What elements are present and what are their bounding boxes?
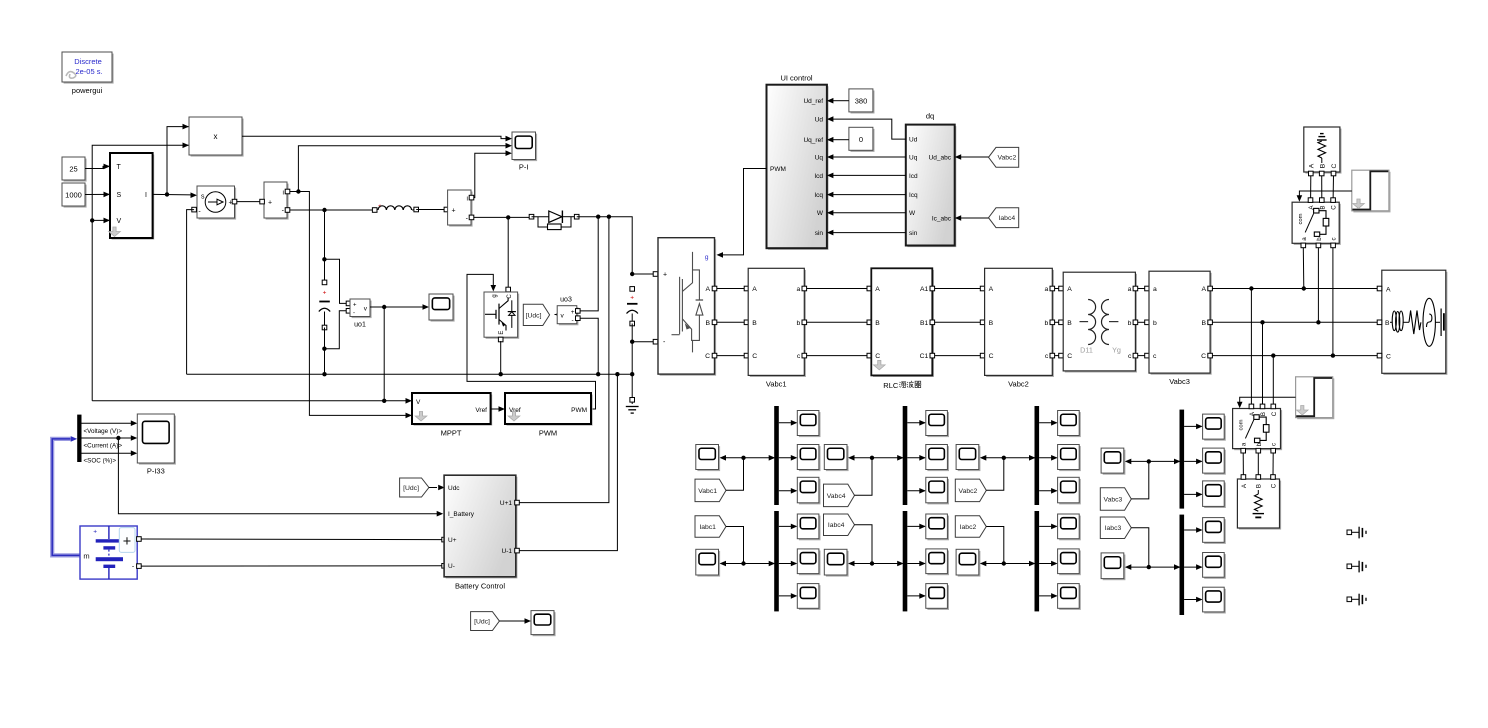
svg-text:c: c xyxy=(1271,443,1278,446)
svg-text:A: A xyxy=(1202,286,1207,293)
load2 icon xyxy=(1257,490,1259,494)
dc plus rail wire after diode xyxy=(577,217,633,274)
scope Vabc3 a xyxy=(1204,416,1226,441)
wire i down to MPPT input 2 xyxy=(298,192,406,416)
svg-text:V: V xyxy=(117,218,122,225)
source icon rotated R-L xyxy=(1321,158,1323,163)
svg-text:A: A xyxy=(1386,286,1391,293)
wire demux Vabc3 out2 xyxy=(1184,460,1202,462)
RLC filter block (RLC LvBoQi) xyxy=(873,270,934,377)
svg-text:-: - xyxy=(572,317,574,324)
dq block xyxy=(907,126,956,247)
svg-text:C: C xyxy=(1331,163,1338,168)
wire Vabc2 to demux xyxy=(986,458,1004,491)
scope Iabc3 a xyxy=(1204,519,1226,544)
demux bar lower Iabc4 xyxy=(903,511,908,611)
svg-text:+: + xyxy=(353,303,357,309)
svg-text:C: C xyxy=(875,353,880,360)
wire Iabc2 to demux xyxy=(986,527,1004,564)
controlled current source xyxy=(199,188,237,220)
svg-text:b: b xyxy=(1045,320,1049,327)
wire meter2 minus to diode (switch node) xyxy=(474,216,529,218)
svg-text:PWM: PWM xyxy=(770,166,786,173)
wire 0 to Uq_ref xyxy=(833,139,849,141)
wire demux Vabc3 out1 xyxy=(1184,425,1202,427)
PV array block xyxy=(112,155,155,240)
Udc scope xyxy=(533,612,556,636)
svg-text:+: + xyxy=(123,534,131,550)
svg-text:B: B xyxy=(989,320,994,327)
wire uo1 minus tap xyxy=(324,311,347,349)
scope Vabc4 b xyxy=(927,446,949,471)
svg-text:a: a xyxy=(1045,286,1049,293)
bus output Voltage wire xyxy=(82,422,132,424)
wire Iabc4 to demux xyxy=(855,525,873,564)
svg-text:B: B xyxy=(1385,320,1390,327)
wire inductor to meter 2 xyxy=(416,209,446,211)
svg-text:A: A xyxy=(989,286,994,293)
svg-text:i: i xyxy=(283,190,284,197)
wire transformer to Vabc3 xyxy=(1138,355,1148,357)
demux bar upper Vabc4 xyxy=(903,406,908,505)
svg-text:A: A xyxy=(1067,286,1072,293)
svg-text:Uq: Uq xyxy=(815,154,824,161)
wire demux Vabc2 out2 xyxy=(1039,457,1057,459)
svg-text:sin: sin xyxy=(815,230,824,237)
svg-text:A1: A1 xyxy=(920,286,929,293)
from tag Iabc2 xyxy=(955,516,986,538)
svg-text:UI control: UI control xyxy=(780,74,812,83)
scope Iabc2 a xyxy=(1059,516,1081,541)
svg-text:b: b xyxy=(1153,320,1157,327)
wire demux Iabc2 out1 xyxy=(1039,525,1057,527)
wire demux Vabc4 out2 xyxy=(907,457,925,459)
wire i up to P-I scope input 2 xyxy=(298,146,505,192)
svg-text:C1: C1 xyxy=(920,353,929,360)
svg-text:+: + xyxy=(452,207,456,214)
scope Vabc1 c xyxy=(799,479,821,505)
svg-text:Vabc1: Vabc1 xyxy=(698,488,717,495)
svg-text:Uq_ref: Uq_ref xyxy=(803,137,823,144)
Battery Control block xyxy=(446,477,518,579)
wire Vabc4 to demux xyxy=(855,458,873,496)
wire Iabc3 to demux xyxy=(1131,528,1149,567)
wire dq to UI control xyxy=(833,194,906,196)
svg-text:Vabc4: Vabc4 xyxy=(827,493,846,500)
bus selector bar xyxy=(77,415,81,462)
goto tag Udc xyxy=(555,314,558,316)
svg-text:B: B xyxy=(1256,484,1263,488)
wire battery minus to U- xyxy=(141,565,442,567)
timer 2 block xyxy=(1297,378,1334,419)
wire transformer to Vabc3 xyxy=(1138,288,1148,290)
svg-text:Iabc4: Iabc4 xyxy=(828,522,845,529)
scope Vabc1 b xyxy=(799,446,821,471)
wire Vabc3 to demux xyxy=(1131,461,1149,499)
wire I tap up to product block xyxy=(167,127,189,195)
svg-text:c: c xyxy=(1128,353,1132,360)
wire demux Vabc2 out1 xyxy=(1039,422,1057,424)
wire Vabc3 B to load xyxy=(1212,321,1379,323)
wire transformer to Vabc3 xyxy=(1138,321,1148,323)
wire demux Iabc4 out3 xyxy=(907,595,925,597)
wire 380 to Ud_ref xyxy=(833,100,849,102)
wire product output to P-I scope xyxy=(242,136,506,138)
svg-text:B: B xyxy=(1319,163,1326,168)
current measurement block (meter 2) xyxy=(444,207,449,212)
wire demux Vabc3 out3 xyxy=(1184,493,1202,495)
PWM block xyxy=(507,395,593,426)
wire v to scope1 xyxy=(384,306,422,308)
wire inverter B to Vabc1 xyxy=(717,321,746,323)
wire demux Iabc4 out1 xyxy=(907,525,925,527)
svg-text:Vabc1: Vabc1 xyxy=(766,379,787,388)
wire Vabc2 to transformer xyxy=(1055,288,1062,290)
svg-text:+: + xyxy=(571,309,575,316)
constant 1000 block xyxy=(64,185,87,208)
wire Vabc1 to RLC filter xyxy=(807,321,870,323)
bus output Current wire xyxy=(82,437,132,439)
wire meter1 i to junction xyxy=(290,191,299,193)
svg-text:Iabc1: Iabc1 xyxy=(699,524,716,531)
grid source block xyxy=(1305,129,1341,174)
svg-text:+: + xyxy=(663,272,667,279)
wire demux Iabc2 out2 xyxy=(1039,563,1057,565)
scope Vabc3 b xyxy=(1204,450,1226,475)
wire Vabc3 A to load xyxy=(1212,288,1379,290)
demux bar upper Vabc1 xyxy=(774,406,779,505)
svg-text:C: C xyxy=(1201,353,1206,360)
wire demux Vabc1 out1 xyxy=(779,422,797,424)
scope Vabc3 c xyxy=(1204,483,1226,509)
wire demux Iabc2 out3 xyxy=(1039,595,1057,597)
svg-text:Iabc3: Iabc3 xyxy=(1105,525,1122,532)
wire MPPT to PWM xyxy=(491,408,499,410)
scope Iabc2 b xyxy=(1059,551,1081,576)
wire dq Ud to UI control xyxy=(833,119,906,139)
wire RLC filter to Vabc2 xyxy=(935,355,983,357)
demux bar lower Iabc1 xyxy=(774,511,779,611)
svg-text:PWM: PWM xyxy=(539,429,557,438)
svg-text:C: C xyxy=(1067,353,1072,360)
wire demux Iabc1 out1 xyxy=(779,525,797,527)
three-phase series RLC load 2 xyxy=(1239,481,1281,530)
svg-text:c: c xyxy=(1045,353,1049,360)
svg-text:PWM: PWM xyxy=(571,407,587,414)
svg-text:V: V xyxy=(416,399,421,406)
wire Vabc1 to demux xyxy=(726,458,744,491)
svg-text:25: 25 xyxy=(69,165,77,174)
svg-text:RLC: RLC xyxy=(883,381,899,390)
boost capacitor branch xyxy=(324,210,326,282)
scope Vabc2 b xyxy=(1059,446,1081,471)
diode D with snubber xyxy=(529,214,534,219)
RLC filter CJK glyphs (drawn) xyxy=(899,382,906,388)
wire timer2 to breaker2 com xyxy=(1240,397,1296,403)
wire PV I output to current source xyxy=(153,193,192,196)
from tag Vabc2 xyxy=(955,479,986,502)
wire demux Vabc1 out2 xyxy=(779,457,797,459)
wire demux Iabc3 out3 xyxy=(1184,599,1202,601)
dc link capacitor xyxy=(630,272,634,276)
svg-text:Discrete: Discrete xyxy=(74,57,102,66)
svg-text:b: b xyxy=(1128,320,1132,327)
IGBT block xyxy=(486,294,520,339)
wire V net to MPPT V input xyxy=(92,400,406,402)
gate path from PWM block to IGBT xyxy=(467,274,596,409)
wire timer1 to breaker com xyxy=(1299,191,1351,197)
svg-text:i: i xyxy=(467,196,468,203)
svg-text:B: B xyxy=(1202,320,1207,327)
svg-text:S: S xyxy=(117,192,122,199)
svg-text:C: C xyxy=(1386,354,1391,361)
scope Vabc1 phase display xyxy=(697,446,720,471)
scope Iabc1 b xyxy=(799,551,821,576)
svg-text:g: g xyxy=(705,254,709,261)
scope Iabc3 phase display xyxy=(1103,555,1126,581)
svg-text:C: C xyxy=(705,353,710,360)
svg-text:uo3: uo3 xyxy=(560,297,572,304)
wire dq to UI control xyxy=(833,174,906,176)
wire dq to UI control xyxy=(833,232,906,234)
wires breaker2 down to load2 xyxy=(1242,453,1244,477)
wires bus down to breaker2 xyxy=(1250,289,1252,407)
svg-text:[Udc]: [Udc] xyxy=(526,312,542,319)
svg-text:g: g xyxy=(492,294,498,297)
svg-text:W: W xyxy=(909,210,916,217)
svg-text:-: - xyxy=(353,311,355,317)
wire UI control PWM to inverter gate xyxy=(721,169,767,255)
uo3 voltage measurement block xyxy=(559,307,579,325)
scope Vabc4 phase display xyxy=(826,446,849,471)
svg-text:com: com xyxy=(1239,419,1245,430)
svg-text:b: b xyxy=(1256,442,1263,446)
svg-text:Vabc3: Vabc3 xyxy=(1104,496,1123,503)
scope Iabc2 phase display xyxy=(958,551,981,577)
wire dc link to inverter plus xyxy=(632,273,656,275)
ground block 2 xyxy=(1347,564,1352,569)
svg-text:Ud: Ud xyxy=(909,137,918,144)
svg-text:P-I: P-I xyxy=(519,163,529,172)
svg-text:c: c xyxy=(1331,237,1338,240)
svg-text:dq: dq xyxy=(926,112,934,121)
svg-text:Icq: Icq xyxy=(909,192,918,199)
svg-text:1000: 1000 xyxy=(65,191,82,200)
svg-text:Icq: Icq xyxy=(814,192,823,199)
scope Vabc3 phase display xyxy=(1103,450,1126,475)
svg-text:m: m xyxy=(83,552,89,561)
from tag Iabc4 xyxy=(824,514,855,536)
wire Vabc1 to RLC filter xyxy=(807,288,870,290)
svg-text:C: C xyxy=(752,353,757,360)
voltage measurement block uo1 xyxy=(346,301,351,306)
svg-text:W: W xyxy=(817,210,824,217)
three-phase breaker 1 xyxy=(1294,204,1341,245)
svg-text:C: C xyxy=(1270,483,1277,488)
scope Vabc2 c xyxy=(1059,479,1081,505)
wire demux Vabc4 out3 xyxy=(907,490,925,492)
svg-text:C: C xyxy=(989,353,994,360)
constant 25 block xyxy=(64,159,87,182)
wire meter1 minus to inductor (dc + rail) xyxy=(290,209,373,211)
svg-text:D11: D11 xyxy=(1080,346,1093,355)
battery m bus wire (blue) xyxy=(52,439,80,556)
wire Vabc3 C to load xyxy=(1212,355,1379,357)
svg-text:a: a xyxy=(1241,442,1248,446)
three-phase transformer block D11 Yg xyxy=(1065,274,1137,373)
UI control block xyxy=(768,86,828,250)
scope Vabc1 a xyxy=(799,412,821,437)
IGBT switch vertical wire from rail xyxy=(507,217,509,292)
demux bar lower Iabc2 xyxy=(1035,511,1040,611)
svg-text:Icd: Icd xyxy=(909,173,918,180)
svg-text:a: a xyxy=(1153,286,1157,293)
svg-text:U+: U+ xyxy=(448,537,457,544)
demux bar upper Vabc2 xyxy=(1035,406,1040,505)
svg-text:sin: sin xyxy=(909,230,918,237)
from tag Udc to battery control xyxy=(400,478,429,497)
wire current source to current meter 1 xyxy=(237,201,263,203)
battery block xyxy=(80,526,137,579)
wire demux Iabc3 out1 xyxy=(1184,529,1202,531)
svg-text:U-: U- xyxy=(448,563,455,570)
from tag Iabc4 to dq xyxy=(989,208,1019,228)
svg-text:<Voltage (V)>: <Voltage (V)> xyxy=(84,428,123,435)
wires source to breaker xyxy=(1310,176,1312,200)
universal bridge inverter block xyxy=(660,239,717,375)
svg-text:P-I33: P-I33 xyxy=(147,467,165,476)
IGBT icon xyxy=(485,313,496,315)
wire v down to V net xyxy=(383,307,385,401)
wire dq to UI control xyxy=(833,212,906,214)
wire U-1 to ground rail xyxy=(519,374,617,550)
svg-text:Ud_ref: Ud_ref xyxy=(803,98,823,105)
scope Iabc1 c xyxy=(799,585,821,610)
svg-text:U-1: U-1 xyxy=(502,548,513,555)
three-phase breaker 2 xyxy=(1234,410,1282,450)
three-phase measurement block Vabc1 xyxy=(750,270,806,377)
svg-text:T: T xyxy=(117,164,122,171)
svg-text:+: + xyxy=(268,199,272,206)
svg-text:a: a xyxy=(797,286,801,293)
svg-text:Vabc2: Vabc2 xyxy=(1008,379,1029,388)
three-phase measurement block Vabc2 xyxy=(986,270,1054,377)
svg-text:A: A xyxy=(752,286,757,293)
svg-text:[Udc]: [Udc] xyxy=(474,618,490,625)
from tag Iabc1 xyxy=(695,516,726,538)
svg-text:C: C xyxy=(1331,205,1338,210)
svg-text:Udc: Udc xyxy=(448,485,460,492)
wire U+1 to dc rail xyxy=(519,217,609,503)
bus output SOC wire xyxy=(82,452,132,454)
svg-text:Uq: Uq xyxy=(909,154,918,161)
wire current source minus down to ground rail xyxy=(187,210,195,375)
svg-text:powergui: powergui xyxy=(72,86,103,95)
svg-text:+: + xyxy=(630,295,634,302)
inductor L xyxy=(372,208,377,213)
wires breaker1 down to bus xyxy=(1302,248,1305,289)
svg-text:380: 380 xyxy=(855,97,868,106)
svg-text:com: com xyxy=(1298,213,1304,224)
IGBT E wire to ground rail xyxy=(498,337,503,342)
svg-text:s: s xyxy=(201,194,205,201)
from tag Iabc3 xyxy=(1100,517,1131,539)
svg-text:Ud: Ud xyxy=(815,117,824,124)
load icon xyxy=(1390,321,1392,323)
svg-text:Icd: Icd xyxy=(814,173,823,180)
scope Vabc2 a xyxy=(1059,412,1081,437)
svg-text:2e-05 s.: 2e-05 s. xyxy=(75,67,102,76)
svg-text:Vabc2: Vabc2 xyxy=(959,488,978,495)
demux bar upper Vabc3 xyxy=(1180,410,1185,509)
MPPT block xyxy=(414,395,493,426)
product block x xyxy=(191,119,244,157)
svg-text:MPPT: MPPT xyxy=(441,429,462,438)
scope Iabc4 b xyxy=(927,551,949,576)
powergui block xyxy=(64,54,114,84)
ground block 3 xyxy=(1347,597,1352,602)
from tag Udc to scope xyxy=(471,612,500,631)
wire current to I_Battery xyxy=(118,438,437,514)
wire 25 to T xyxy=(85,166,110,168)
wire battery plus to U+ xyxy=(141,538,442,541)
P-I scope xyxy=(514,134,538,162)
wire RLC filter to Vabc2 xyxy=(935,321,983,323)
svg-text:Battery Control: Battery Control xyxy=(455,582,505,591)
svg-text:b: b xyxy=(1316,237,1323,241)
breaker 1 switch icon xyxy=(1305,214,1313,233)
svg-text:B: B xyxy=(752,320,757,327)
wire demux Vabc1 out3 xyxy=(779,490,797,492)
ground symbol under dc link xyxy=(630,398,635,403)
wire dc link to inverter minus xyxy=(632,341,656,343)
svg-text:0: 0 xyxy=(859,135,863,144)
svg-text:Iabc4: Iabc4 xyxy=(999,215,1016,222)
svg-text:+: + xyxy=(323,290,327,297)
three-phase RLC load right xyxy=(1383,272,1447,375)
wire RLC filter to Vabc2 xyxy=(935,288,983,290)
scope Vabc4 c xyxy=(927,479,949,505)
breaker 2 switch icon xyxy=(1245,420,1253,439)
svg-text:B1: B1 xyxy=(920,320,929,327)
from tag Vabc4 xyxy=(824,484,855,507)
svg-text:B: B xyxy=(1319,205,1326,209)
wire demux Iabc3 out2 xyxy=(1184,566,1202,568)
svg-text:B: B xyxy=(1067,320,1072,327)
svg-text:Iabc2: Iabc2 xyxy=(960,524,977,531)
constant 380 xyxy=(851,91,875,114)
scope Iabc1 phase display xyxy=(697,551,720,577)
wire uo1 plus tap xyxy=(324,259,347,303)
scope Vabc4 a xyxy=(927,412,949,437)
wire demux Vabc2 out3 xyxy=(1039,490,1057,492)
scope uo1 display xyxy=(431,296,455,322)
svg-text:A: A xyxy=(705,286,710,293)
wire demux Vabc4 out1 xyxy=(907,422,925,424)
svg-text:Yg: Yg xyxy=(1112,346,1121,355)
svg-text:a: a xyxy=(1128,286,1132,293)
from tag Vabc2 to dq xyxy=(989,147,1019,167)
svg-text:<SOC (%)>: <SOC (%)> xyxy=(84,457,117,464)
wire dq to UI control xyxy=(833,156,906,158)
wire demux Iabc4 out2 xyxy=(907,563,925,565)
scope Iabc3 c xyxy=(1204,589,1226,614)
wire uo3 plus to dc rail xyxy=(580,217,598,311)
scope Iabc4 a xyxy=(927,516,949,541)
three-phase measurement block Vabc3 xyxy=(1151,273,1212,375)
svg-text:c: c xyxy=(797,353,801,360)
svg-text:Ud_abc: Ud_abc xyxy=(929,154,952,161)
